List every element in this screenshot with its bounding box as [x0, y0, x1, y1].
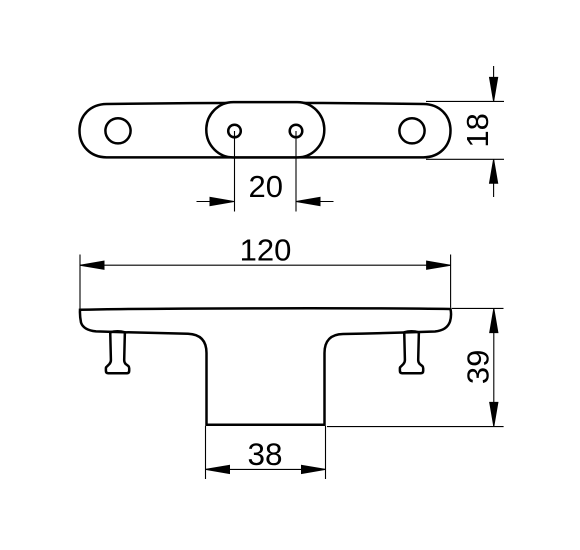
svg-text:18: 18	[460, 113, 495, 147]
dimension 18: bottom arrow	[490, 159, 498, 183]
top view: right mounting hole	[399, 118, 424, 143]
dimension 120: extension lines	[79, 255, 81, 309]
svg-text:120: 120	[240, 233, 292, 268]
dimension 38: left arrow	[206, 465, 230, 473]
dimension 18: top arrow	[490, 77, 498, 101]
top view: left mounting hole	[105, 118, 130, 143]
dimension 39: dimension line	[493, 309, 495, 427]
dimension 38: right arrow	[302, 465, 326, 473]
dimension 20: left arrow	[210, 197, 234, 205]
top view: right small hole	[290, 125, 303, 138]
dimension 38: extension lines	[205, 426, 207, 479]
dimension 18: dimension line segments	[493, 66, 495, 101]
top view: left small hole	[228, 125, 241, 138]
dimension 38: dimension line	[206, 468, 326, 470]
front view: left screw boss bump	[110, 331, 125, 332]
dimension 18: extension lines	[426, 100, 504, 102]
top view: plate outline (stadium)	[80, 103, 451, 158]
front view: right fixing screw	[400, 331, 423, 373]
svg-text:39: 39	[460, 350, 495, 384]
dimension 20: right arrow	[296, 197, 320, 205]
top view: central boss (rounded rect)	[206, 102, 324, 157]
dimension 39: extension lines	[452, 307, 504, 309]
dimension 20: extension lines	[234, 131, 236, 212]
dimension 120: right arrow	[427, 261, 451, 269]
front view: left fixing screw	[106, 331, 129, 373]
dimension 120: left arrow	[80, 261, 104, 269]
dimension 120: dimension line	[80, 264, 451, 266]
dimension 39: bottom arrow	[490, 402, 498, 426]
svg-text:38: 38	[247, 436, 282, 472]
dimension 20: dimension line segments	[197, 201, 235, 203]
dimension 39: top arrow	[490, 309, 498, 333]
front view: body profile (plate + pedestal)	[80, 308, 451, 425]
svg-text:20: 20	[249, 169, 283, 204]
front view: right screw boss bump	[404, 331, 419, 332]
